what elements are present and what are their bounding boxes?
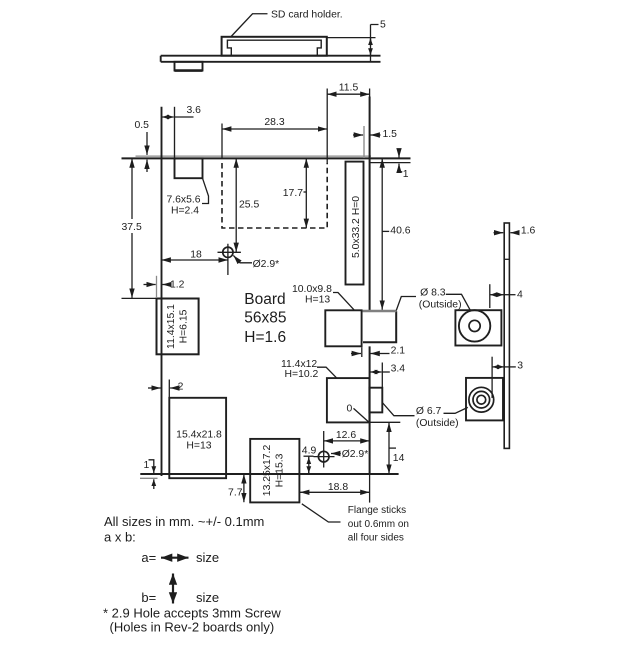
dim 1.2	[144, 276, 185, 298]
svg-text:a=: a=	[141, 550, 156, 565]
svg-text:56x85: 56x85	[244, 310, 286, 327]
svg-text:4.9: 4.9	[302, 446, 317, 457]
b double arrow	[172, 574, 174, 604]
svg-text:11.4x15.1: 11.4x15.1	[166, 304, 177, 349]
dim 0.5	[135, 120, 150, 172]
svg-text:H=6.15: H=6.15	[179, 309, 190, 343]
barrel lower outer	[469, 387, 494, 412]
power connector under board (side view)	[175, 62, 203, 71]
barrel lower middle	[473, 391, 490, 408]
svg-text:Ø2.9*: Ø2.9*	[253, 259, 280, 270]
SD card holder outer (side view)	[222, 37, 327, 56]
hole H2 crosshair	[314, 431, 335, 468]
svg-text:18.8: 18.8	[328, 482, 348, 493]
side view board	[161, 56, 381, 62]
svg-text:2: 2	[178, 382, 184, 393]
dim 7.7	[228, 474, 244, 502]
dim 1.5	[353, 126, 397, 158]
dim 2.1	[351, 346, 405, 357]
svg-text:0: 0	[347, 403, 353, 414]
dim 14	[389, 423, 405, 474]
bottom edge extension	[369, 421, 400, 423]
svg-text:H=13: H=13	[186, 441, 211, 452]
dim 18	[162, 249, 228, 260]
leader SD card holder	[231, 14, 268, 37]
dim 5 (holder height)	[327, 20, 386, 63]
flange top edge (gray)	[136, 155, 372, 157]
svg-text:17.7: 17.7	[283, 188, 303, 199]
svg-text:Board: Board	[244, 291, 285, 308]
connector 5.0x33.2	[346, 162, 364, 285]
dim 28.3	[222, 117, 327, 158]
dim 11.5	[327, 83, 369, 163]
board right edge	[369, 97, 371, 475]
svg-text:40.6: 40.6	[390, 225, 410, 236]
svg-text:a x b:: a x b:	[104, 529, 136, 544]
leader dia 8.3 right	[446, 294, 471, 311]
leader dia 8.3 left	[396, 297, 416, 311]
barrel lower inner	[477, 395, 486, 404]
svg-text:3.4: 3.4	[391, 364, 406, 375]
leader dia 6.7 left	[382, 403, 414, 416]
leader hole H2 dia	[331, 449, 368, 460]
svg-text:4: 4	[517, 290, 523, 301]
svg-text:18: 18	[190, 249, 202, 260]
leader flange note	[302, 504, 341, 522]
svg-text:Ø2.9*: Ø2.9*	[342, 449, 369, 460]
board top edge	[122, 157, 411, 159]
svg-text:Flange sticks: Flange sticks	[348, 505, 406, 516]
dim 37.5	[122, 158, 168, 298]
board left edge	[161, 107, 163, 476]
svg-text:H=2.4: H=2.4	[171, 206, 199, 217]
dim 40.6	[382, 158, 411, 309]
svg-text:Ø 8.3: Ø 8.3	[420, 287, 446, 298]
svg-text:All sizes in mm. ~+/- 0.1mm: All sizes in mm. ~+/- 0.1mm	[104, 514, 264, 529]
svg-text:(Outside): (Outside)	[416, 418, 459, 429]
svg-text:H=10.2: H=10.2	[285, 369, 319, 380]
svg-text:3: 3	[517, 360, 523, 371]
svg-text:28.3: 28.3	[264, 117, 284, 128]
svg-text:(Outside): (Outside)	[419, 299, 462, 310]
svg-text:out 0.6mm on: out 0.6mm on	[348, 519, 409, 530]
svg-text:15.4x21.8: 15.4x21.8	[176, 430, 222, 441]
svg-text:7.6x5.6: 7.6x5.6	[166, 195, 200, 206]
dim 1.6	[494, 226, 536, 237]
leader dia 6.7 right	[444, 407, 468, 413]
a double arrow	[161, 557, 189, 559]
svg-text:all four sides: all four sides	[348, 533, 404, 544]
connector 11.4x15.1	[157, 299, 199, 355]
dim 17.7	[283, 158, 307, 228]
connector 11.4x12	[327, 378, 370, 422]
svg-text:Ø 6.7: Ø 6.7	[416, 406, 442, 417]
dim 3.4	[371, 363, 406, 388]
edge view strip (right)	[504, 223, 509, 448]
board bottom edge	[140, 473, 398, 475]
svg-text:1.6: 1.6	[521, 226, 536, 237]
SD holder hidden outline (dashed)	[222, 163, 327, 228]
svg-text:25.5: 25.5	[239, 200, 259, 211]
leader 11.4x12	[317, 367, 337, 378]
dim 25.5	[236, 158, 259, 252]
svg-text:10.0x9.8: 10.0x9.8	[292, 284, 332, 295]
svg-text:14: 14	[393, 453, 405, 464]
leader 7.6x5.6	[202, 178, 209, 203]
mounting block lower (side view)	[466, 378, 503, 421]
svg-text:SD card holder.: SD card holder.	[271, 9, 343, 20]
SD card holder inner (side view)	[227, 40, 321, 56]
power connector 7.6x5.6	[175, 158, 203, 178]
gray extension of bottom block (left)	[140, 477, 158, 479]
barrel upper inner	[469, 320, 480, 331]
dim 4.9	[302, 446, 317, 474]
hole H2	[318, 451, 329, 462]
svg-text:size: size	[196, 590, 219, 605]
svg-text:0.5: 0.5	[135, 120, 150, 131]
svg-text:size: size	[196, 550, 219, 565]
leader hole H1 dia	[233, 255, 279, 269]
connector 15.4x21.8	[169, 398, 226, 478]
USB outer part top edge (gray)	[363, 310, 397, 312]
svg-text:H=1.6: H=1.6	[244, 329, 286, 346]
svg-text:1: 1	[403, 169, 409, 180]
strip segment tick	[504, 258, 509, 260]
dim 1 (bottom left)	[144, 460, 154, 489]
svg-text:5.0x33.2 H=0: 5.0x33.2 H=0	[351, 196, 362, 258]
dim 12.6	[324, 430, 370, 441]
svg-text:1.2: 1.2	[170, 280, 185, 291]
dim 2	[148, 380, 184, 400]
svg-text:12.6: 12.6	[336, 430, 356, 441]
leader 0	[354, 408, 370, 422]
USB connector outer part	[363, 311, 396, 342]
hole H1 crosshair	[218, 244, 241, 275]
svg-text:H=15.3: H=15.3	[275, 453, 286, 487]
svg-text:13.25x17.2: 13.25x17.2	[262, 445, 273, 497]
mounting block upper (side view)	[455, 310, 501, 345]
dim 1 (top right)	[370, 149, 411, 180]
svg-text:11.5: 11.5	[339, 83, 359, 94]
svg-text:7.7: 7.7	[228, 487, 243, 498]
svg-text:1: 1	[144, 460, 150, 471]
svg-text:H=13: H=13	[305, 294, 330, 305]
dim 3	[492, 357, 523, 398]
leader 10.0x9.8	[333, 293, 354, 310]
connector 13.25x17.2	[250, 439, 299, 503]
dim 4	[490, 284, 523, 308]
dim 3.6	[162, 105, 201, 158]
svg-text:(Holes in Rev-2 boards only): (Holes in Rev-2 boards only)	[110, 619, 275, 634]
barrel upper outer	[459, 310, 490, 341]
hole H1	[223, 247, 233, 257]
svg-text:3.6: 3.6	[187, 105, 202, 116]
svg-text:37.5: 37.5	[122, 222, 142, 233]
USB connector 10.0x9.8 inner part	[325, 310, 361, 346]
svg-text:b=: b=	[141, 590, 156, 605]
svg-text:5: 5	[380, 20, 386, 31]
USB small outer part	[369, 388, 382, 413]
svg-text:2.1: 2.1	[391, 346, 406, 357]
svg-text:1.5: 1.5	[383, 129, 398, 140]
dim 18.8	[300, 474, 370, 503]
